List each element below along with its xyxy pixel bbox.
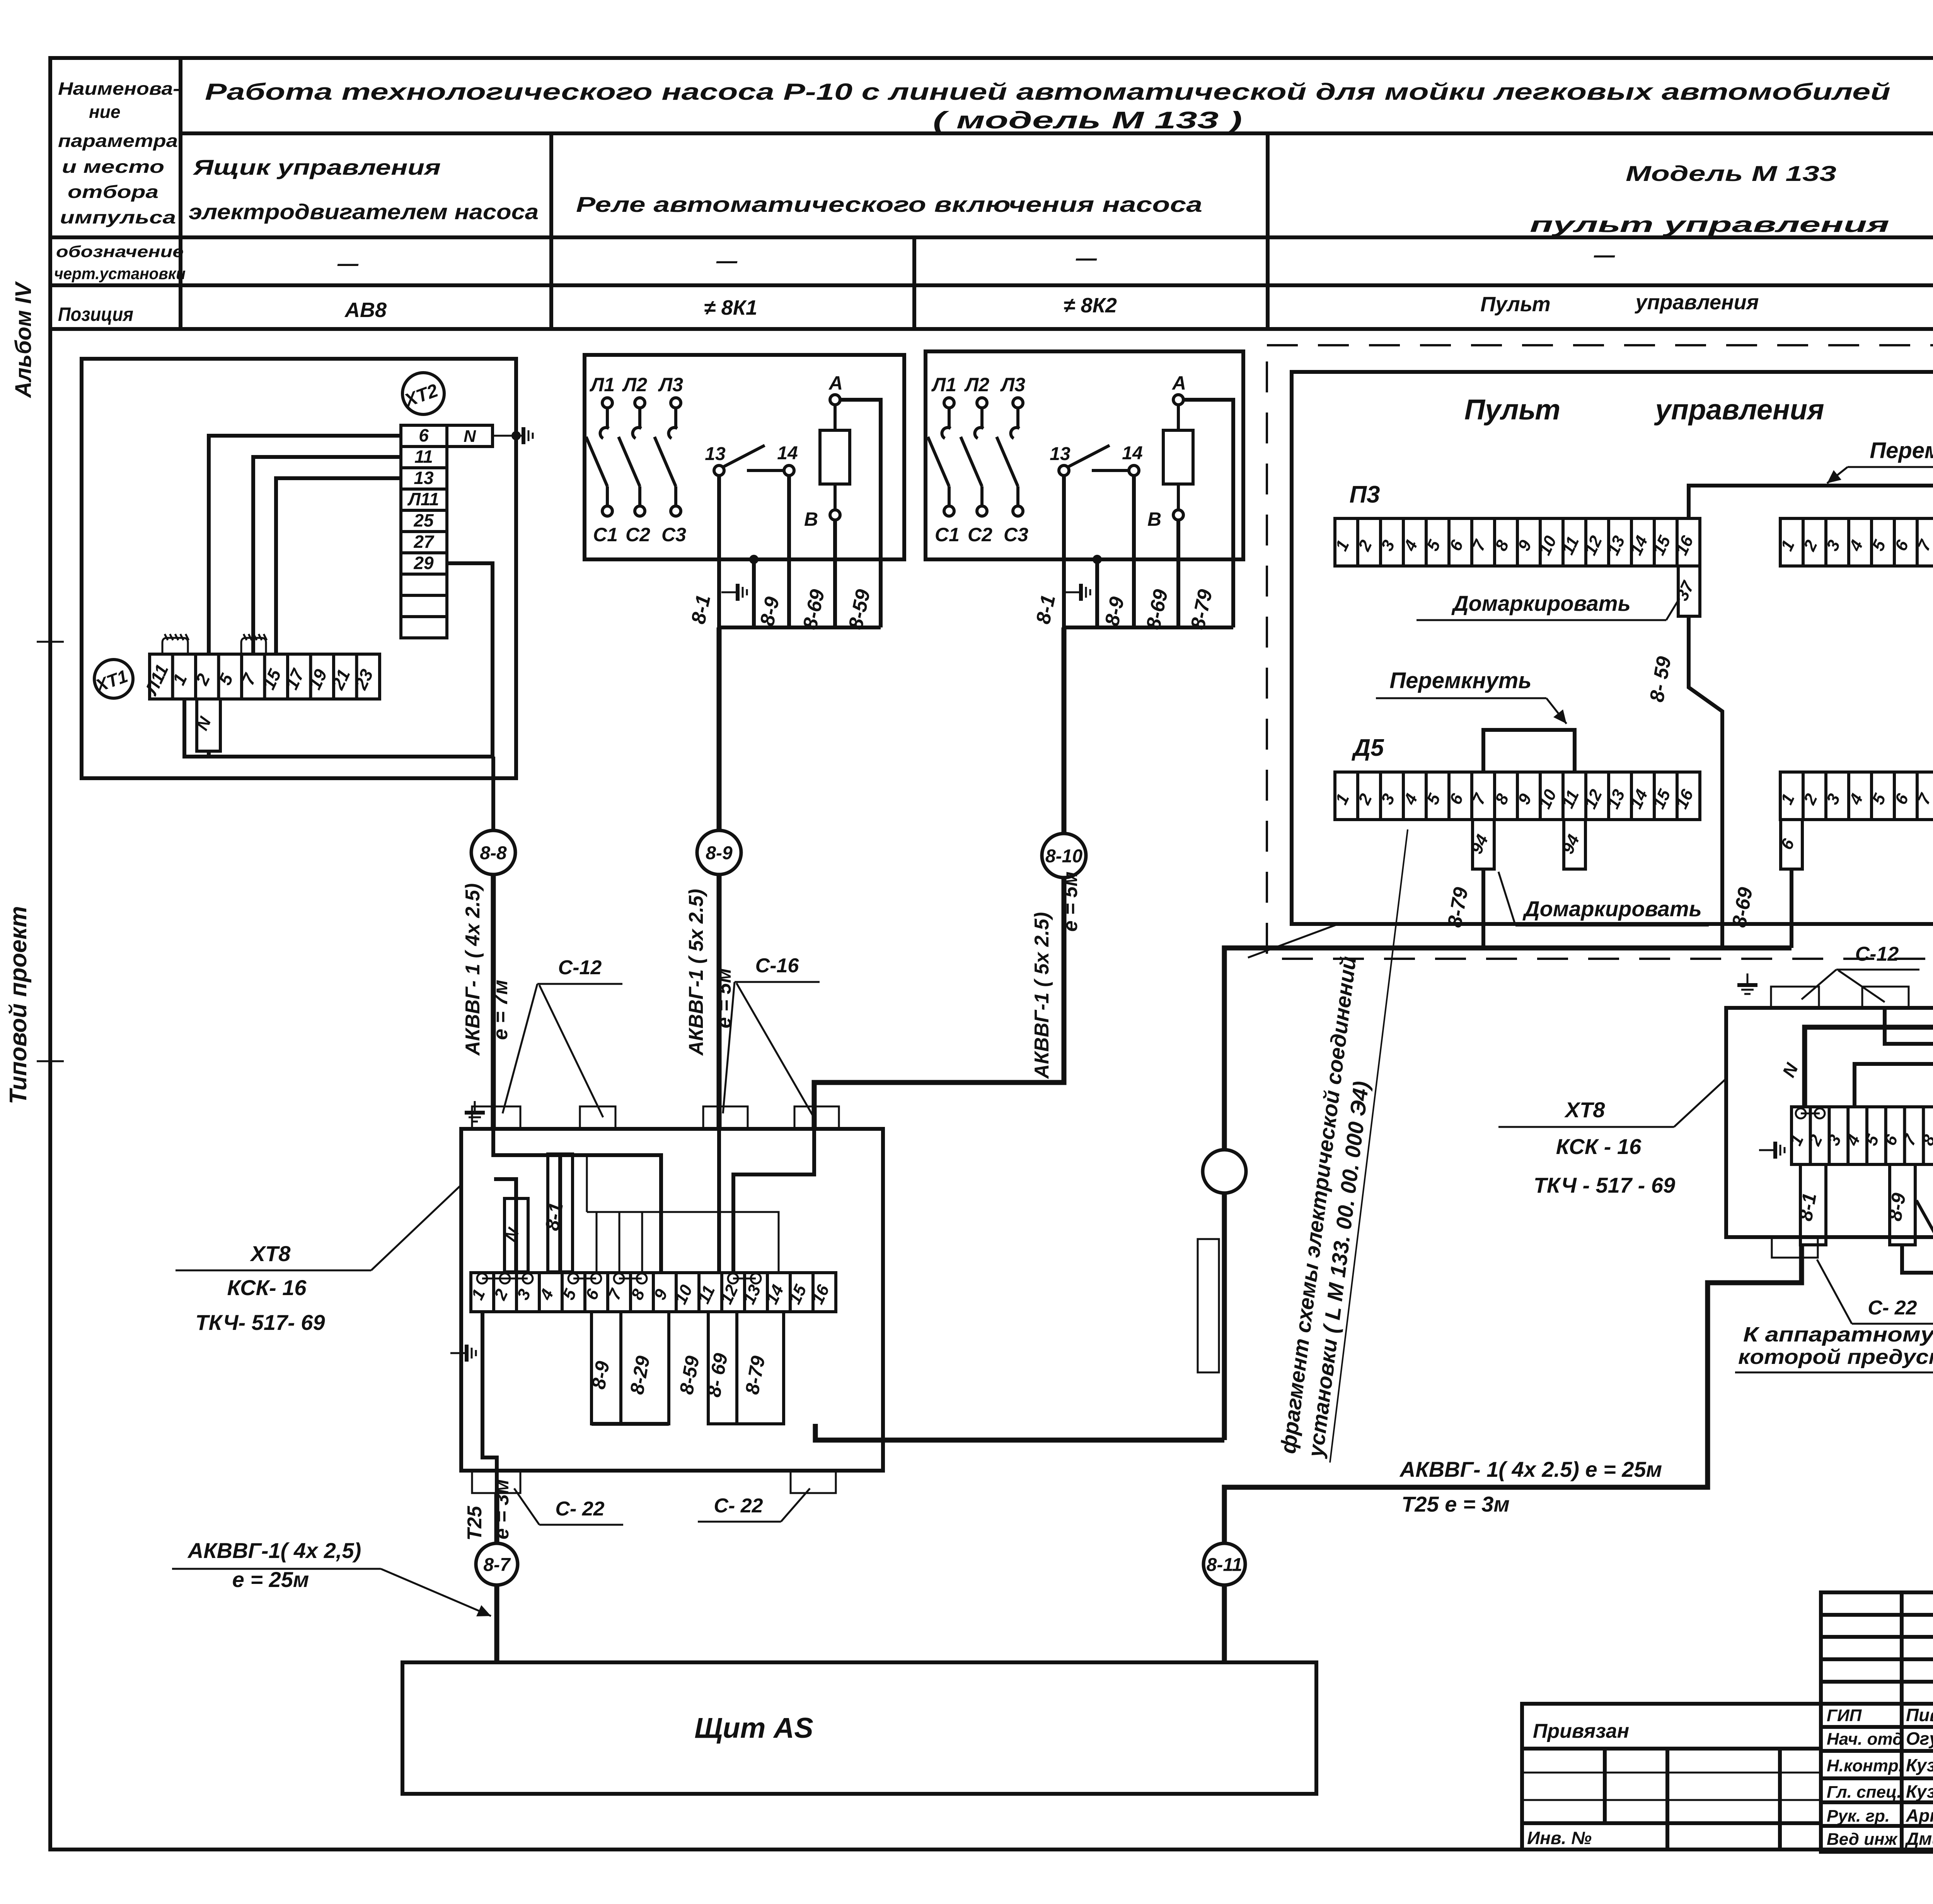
svg-text:Ящик управления: Ящик управления [192, 155, 441, 179]
switch Л1/С1 K1 [586, 398, 612, 516]
svg-text:импульса: импульса [60, 207, 176, 227]
svg-text:Л11: Л11 [407, 489, 439, 509]
svg-text:Альбом IV: Альбом IV [11, 281, 36, 399]
wires below tags (left XT8) [482, 1312, 497, 1515]
svg-text:К аппаратному шкафу установк: К аппаратному шкафу установки для мойки … [1743, 1323, 1933, 1346]
wires 13,14,B down to bundle (K1) [717, 476, 721, 627]
jumper cells 7-8 [614, 1273, 647, 1284]
relay coil A-B (K2) [1147, 372, 1193, 530]
svg-text:—: — [1076, 247, 1097, 270]
ground above right XT8 [1737, 973, 1757, 994]
svg-text:С3: С3 [661, 524, 686, 545]
terminal strip П3 [1332, 518, 1700, 566]
svg-text:Т25 е = 3м: Т25 е = 3м [1401, 1492, 1510, 1516]
svg-text:ТКЧ- 517- 69: ТКЧ- 517- 69 [195, 1310, 325, 1335]
svg-text:А: А [828, 372, 843, 394]
svg-text:Нач. отд: Нач. отд [1827, 1730, 1903, 1749]
svg-text:С- 22: С- 22 [1868, 1297, 1917, 1319]
top connector tabs (left XT8) [472, 1106, 520, 1129]
wire XT2:13 to XT1:15 [276, 478, 401, 654]
svg-text:—: — [716, 249, 738, 273]
terminal strip П6 [1777, 772, 1933, 820]
svg-text:—: — [1594, 244, 1615, 267]
svg-text:Вед инж: Вед инж [1827, 1830, 1898, 1849]
cable marker circle 8-7 [476, 1543, 518, 1585]
designation circle XT1 (left) [92, 660, 133, 698]
svg-text:ГИП: ГИП [1827, 1706, 1862, 1725]
svg-text:Наименова-: Наименова- [58, 78, 180, 99]
switch Л1/С1 K2 [928, 398, 954, 516]
junction dot + ground (K2) [1093, 555, 1102, 564]
wire XT2:6 to XT1:2 [209, 436, 401, 654]
svg-text:Привязан: Привязан [1533, 1720, 1629, 1742]
svg-text:С2: С2 [626, 524, 650, 545]
wire XT2:29 to XT1:1 and down to cable 8-8 [184, 563, 493, 830]
unlabeled cable circle on trunk [1203, 1150, 1246, 1193]
terminal strip XT2 (left, vertical) [401, 425, 447, 638]
contact 13-14 (K2) [1050, 443, 1142, 476]
svg-text:Л1: Л1 [931, 374, 956, 395]
wire A to 8-59 drop (K1) [840, 400, 881, 627]
svg-text:8-10: 8-10 [1045, 846, 1082, 866]
wire 8-59 from tag 37 down [1689, 616, 1722, 948]
junction dot + ground wire (K1) [749, 555, 759, 564]
svg-text:Арнаутова: Арнаутова [1906, 1805, 1933, 1826]
svg-text:Л2: Л2 [622, 374, 647, 395]
ground inside left XT8 [450, 1345, 476, 1362]
svg-text:которой предусматривает авто: которой предусматривает автоматическое у… [1738, 1345, 1933, 1369]
svg-text:Кузнецов: Кузнецов [1906, 1781, 1933, 1802]
svg-text:Л3: Л3 [658, 374, 683, 395]
switch Л3/С3 K2 [997, 398, 1023, 516]
svg-text:ХТ8: ХТ8 [1564, 1098, 1606, 1122]
svg-text:29: 29 [413, 553, 434, 573]
wire bundle down to cable 8-10 [1062, 627, 1067, 834]
svg-text:Д5: Д5 [1351, 735, 1384, 761]
svg-text:13: 13 [1050, 444, 1070, 464]
terminal strip XT8 right [1786, 1107, 1933, 1164]
wire cable 8-9 down to XT8 [717, 874, 722, 1129]
jumper circles cells 1-2 (right XT8) [1796, 1108, 1825, 1118]
wire 8-69 from tag 6 down [1790, 869, 1793, 948]
bottom tabs (right XT8) [1772, 1237, 1818, 1258]
svg-text:27: 27 [413, 532, 435, 552]
bundle bottom (K1) [719, 626, 881, 629]
conduit marker rectangle [1198, 1239, 1219, 1372]
wire 8-79 from tag 94 down [1481, 869, 1485, 948]
wire from right XT8 to 8-11 and Щит AS [1224, 1245, 1802, 1543]
svg-text:А: А [1171, 372, 1186, 394]
wire cable 8-10 to left XT8 tab [814, 878, 1064, 1129]
box XT8 left (КСК-16) [461, 1129, 883, 1471]
wires below tags (right XT8) [1799, 1245, 1804, 1283]
svg-text:25: 25 [413, 510, 434, 530]
jumper cells 5-6 [568, 1273, 601, 1284]
svg-text:—: — [337, 252, 359, 275]
note фрагмент схемы (rotated) [1275, 823, 1408, 1463]
svg-text:Гл. спец.: Гл. спец. [1827, 1783, 1902, 1802]
svg-text:С- 22: С- 22 [555, 1498, 604, 1520]
svg-text:С2: С2 [968, 524, 992, 545]
box: Ящик управления электродвигателем насоса (left, АВ8) [82, 359, 516, 778]
svg-text:Кузнецов: Кузнецов [1906, 1755, 1933, 1775]
tag 94 below Д5:11 [1558, 820, 1585, 869]
box Щит AS [402, 1662, 1316, 1794]
svg-text:П3: П3 [1349, 481, 1380, 508]
svg-text:и место: и место [62, 157, 164, 177]
ground inside right XT8 [1759, 1142, 1785, 1159]
top connector tabs (right XT8) [1771, 987, 1819, 1008]
jumper circles (left XT8 cells 1-2-3) [477, 1273, 533, 1284]
solid inner box Пульт управления [1292, 372, 1933, 924]
tag boxes 8-9 / 8-29 (left XT8) [587, 1312, 621, 1424]
ground (K1) [721, 584, 747, 601]
svg-text:Щит AS: Щит AS [694, 1712, 813, 1744]
svg-text:АКВВГ-1 ( 5х 2.5): АКВВГ-1 ( 5х 2.5) [685, 889, 707, 1056]
contact 13-14 (K1) [705, 443, 798, 476]
svg-text:Перемкнуть: Перемкнуть [1389, 668, 1531, 693]
svg-text:8-9: 8-9 [706, 843, 733, 863]
svg-text:Пульт: Пульт [1464, 394, 1560, 426]
svg-text:Рук. гр.: Рук. гр. [1827, 1807, 1890, 1826]
svg-text:≠ 8К2: ≠ 8К2 [1064, 294, 1117, 317]
svg-text:≠ 8К1: ≠ 8К1 [704, 296, 757, 319]
svg-text:14: 14 [1122, 443, 1142, 464]
wire XT2:11 to XT1:7 [253, 457, 401, 654]
terminal N box below XT1 (left) [193, 699, 220, 751]
internal wires (right XT8) [1855, 1008, 1933, 1107]
dashed enclosure Пульт управления [1267, 345, 1933, 959]
svg-text:Огурцов: Огурцов [1906, 1728, 1933, 1749]
tags 8-9 / 8-29 with diagonal (right XT8) [1884, 1164, 1915, 1245]
svg-text:е = 25м: е = 25м [232, 1567, 309, 1592]
box: реле автоматического включения насоса K1 [585, 355, 904, 559]
svg-text:ХТ8: ХТ8 [250, 1241, 291, 1266]
ground (left box, right edge) [507, 427, 533, 444]
switch Л2/С2 K1 [619, 398, 645, 516]
terminal strip Д5 [1332, 772, 1700, 820]
svg-text:обозначение: обозначение [56, 242, 184, 261]
wire bundle down to cable 8-9 [717, 627, 722, 830]
svg-text:Пивторак: Пивторак [1906, 1705, 1933, 1725]
ground above left XT8 [465, 1101, 485, 1122]
svg-text:С3: С3 [1004, 524, 1028, 545]
tag N (left XT8) [501, 1198, 528, 1272]
svg-text:Домаркировать: Домаркировать [1451, 591, 1631, 615]
svg-text:Перемкнуть: Перемкнуть [1870, 438, 1933, 463]
wire 8-7 from left XT8 down to Щит AS [494, 1493, 499, 1543]
svg-text:N: N [464, 427, 476, 446]
wire from N cell to ground, junction dot [493, 435, 516, 437]
svg-text:ТКЧ - 517 - 69: ТКЧ - 517 - 69 [1534, 1173, 1675, 1197]
trunk wire into left XT8 [815, 1424, 1224, 1440]
svg-text:С-12: С-12 [1855, 943, 1899, 965]
svg-text:Типовой проект: Типовой проект [5, 906, 32, 1105]
comb/shield symbols above XT1 (left) [162, 634, 189, 654]
svg-text:8-7: 8-7 [483, 1555, 511, 1575]
box: реле автоматического включения насоса K2 [926, 351, 1243, 559]
tag 37 below П3:16 [1672, 566, 1700, 616]
svg-text:Работа технологического на: Работа технологического насоса Р-10 с ли… [205, 79, 1890, 105]
svg-text:Модель М 133: Модель М 133 [1626, 161, 1836, 186]
bottom tabs (left XT8) [472, 1471, 520, 1493]
svg-text:С1: С1 [593, 524, 618, 545]
svg-text:параметра: параметра [58, 131, 178, 151]
cable marker circle 8-11 [1203, 1543, 1245, 1585]
small table Привязан [1522, 1704, 1821, 1849]
jumper wire П3:16 to П4:14 [1689, 486, 1933, 518]
terminal N cell (left XT2) [447, 425, 493, 447]
svg-text:14: 14 [777, 443, 798, 464]
svg-text:8-8: 8-8 [480, 843, 507, 863]
fold tick marks on left border [37, 641, 64, 643]
svg-text:АКВВГ- 1 ( 4х 2.5): АКВВГ- 1 ( 4х 2.5) [462, 883, 484, 1056]
svg-text:управления: управления [1653, 394, 1824, 426]
tag 94 below Д5:7 [1467, 820, 1494, 869]
cable marker circle 8-9 [697, 830, 741, 874]
svg-text:АКВВГ-1 ( 5х 2.5): АКВВГ-1 ( 5х 2.5) [1031, 912, 1053, 1079]
cable marker circle 8-10 [1042, 834, 1086, 878]
svg-text:КСК- 16: КСК- 16 [227, 1275, 307, 1300]
svg-text:( модель М 133 ): ( модель М 133 ) [933, 107, 1242, 134]
wires 13,14,B down (K2) [1062, 476, 1066, 627]
svg-text:С- 22: С- 22 [714, 1495, 763, 1517]
svg-text:Инв. №: Инв. № [1527, 1828, 1592, 1848]
leader from фрагмент note to dashed box corner [1248, 924, 1338, 958]
terminal strip XT1 left [141, 654, 380, 699]
svg-text:ние: ние [89, 102, 120, 122]
svg-text:С-12: С-12 [558, 956, 602, 979]
wire 8-12 down to right XT8 [1805, 868, 1933, 1107]
svg-text:управления: управления [1635, 291, 1759, 314]
svg-text:Позиция: Позиция [58, 303, 133, 325]
svg-text:е = 3м: е = 3м [491, 1479, 513, 1539]
svg-text:С-16: С-16 [755, 955, 799, 977]
tag 6 below П6:1 [1777, 820, 1802, 869]
relay coil A-B (K1) [804, 372, 850, 530]
switch Л2/С2 K2 [961, 398, 987, 516]
svg-text:8-11: 8-11 [1207, 1555, 1243, 1575]
header table grid [50, 58, 1933, 329]
jumper bracket Д5 cells 7-11 [1483, 730, 1575, 772]
svg-text:Дмитриева: Дмитриева [1904, 1829, 1933, 1849]
title block grid [1821, 1592, 1933, 1852]
wire cable 8-8 down to XT8 [491, 874, 496, 1129]
bundle bottom (K2) [1064, 626, 1233, 629]
internal wires (left XT8) [493, 1129, 661, 1273]
svg-text:Л3: Л3 [1000, 374, 1025, 395]
svg-text:Л1: Л1 [590, 374, 615, 395]
svg-text:С1: С1 [935, 524, 960, 545]
svg-text:АКВВГ-1( 4х 2,5): АКВВГ-1( 4х 2,5) [187, 1538, 361, 1563]
svg-text:В: В [804, 508, 818, 530]
svg-text:Л2: Л2 [964, 374, 989, 395]
tag 8-1 (right XT8) [1794, 1164, 1826, 1245]
svg-text:электродвигателем насоса: электродвигателем насоса [189, 199, 539, 224]
svg-text:13: 13 [705, 444, 726, 464]
svg-text:АВ8: АВ8 [344, 298, 387, 322]
terminal strip П4 [1777, 518, 1933, 566]
tag 8-1 (left XT8) [541, 1154, 573, 1272]
svg-text:13: 13 [414, 468, 434, 488]
svg-text:Реле автоматического включен: Реле автоматического включения насоса [576, 192, 1202, 216]
terminal strip XT8 left [468, 1273, 836, 1312]
wire A to drop (K2) [1183, 400, 1233, 627]
svg-text:11: 11 [414, 447, 433, 467]
svg-text:Пульт: Пульт [1480, 293, 1550, 316]
trunk collector wire at bottom of пульт [1224, 948, 1792, 1440]
box XT8 right (КСК-16) [1726, 1008, 1933, 1237]
cable marker circle 8-8 [471, 830, 515, 874]
svg-text:отбора: отбора [68, 182, 159, 202]
svg-text:В: В [1147, 508, 1161, 530]
svg-text:АКВВГ- 1( 4х 2.5) е = 25м: АКВВГ- 1( 4х 2.5) е = 25м [1399, 1457, 1662, 1481]
svg-text:КСК - 16: КСК - 16 [1556, 1134, 1642, 1159]
svg-text:черт.установки: черт.установки [54, 264, 186, 283]
designation circle XT2 (left) [401, 373, 444, 414]
svg-text:Домаркировать: Домаркировать [1522, 897, 1702, 921]
svg-text:6: 6 [419, 425, 429, 445]
jumper cells 12-13 [728, 1273, 761, 1284]
svg-text:Т25: Т25 [464, 1505, 486, 1541]
svg-text:Н.контр.: Н.контр. [1827, 1756, 1903, 1775]
switch Л3/С3 K1 [655, 398, 681, 516]
svg-text:пульт управления: пульт управления [1530, 212, 1889, 237]
